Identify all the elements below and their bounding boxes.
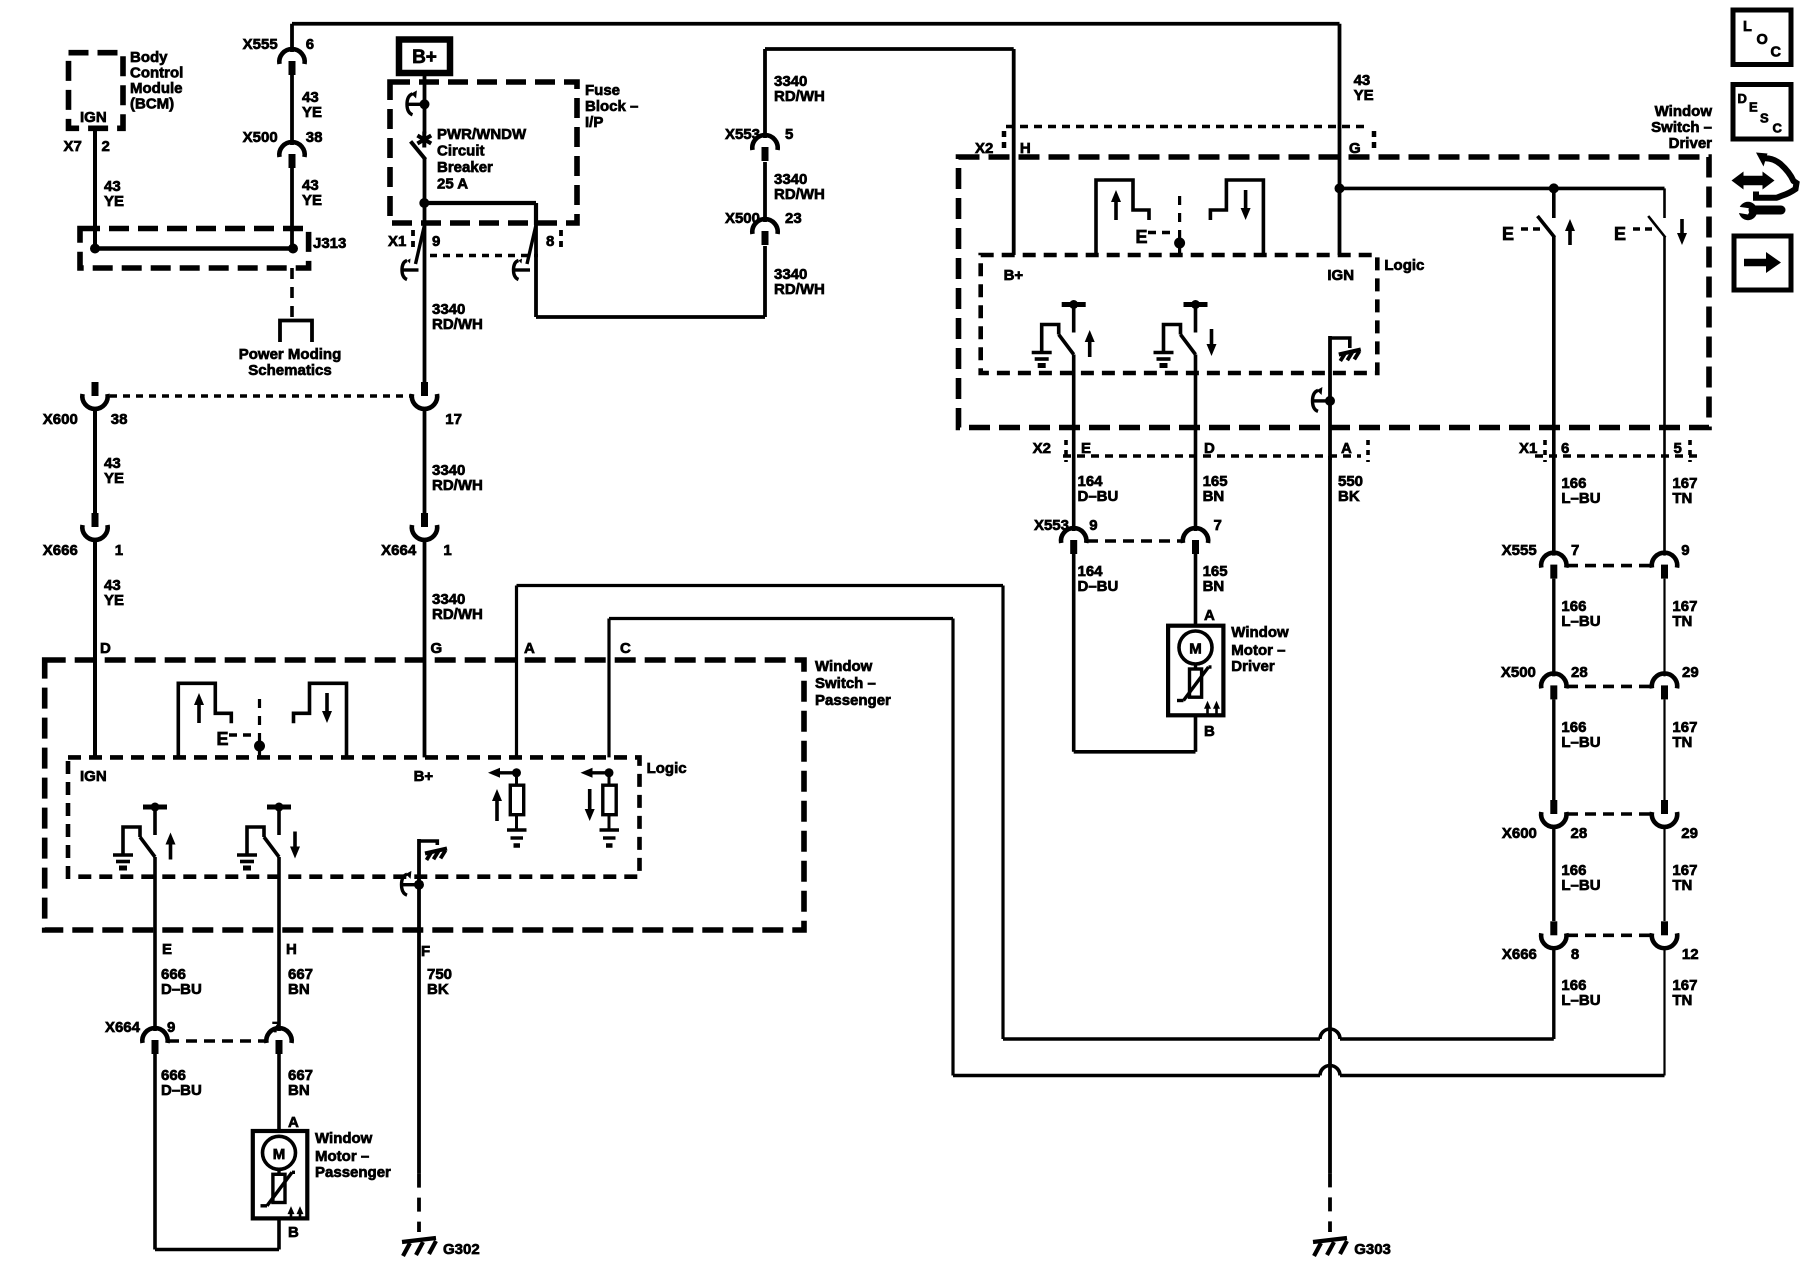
- svg-text:B+: B+: [1004, 267, 1024, 284]
- wire 167 TN X555 to X500: [1663, 579, 1665, 677]
- svg-text:I/P: I/P: [585, 114, 603, 131]
- connector X600 pins 28 and 29: [1550, 800, 1557, 814]
- terminal hook X1 pin 8: [527, 225, 536, 264]
- wire 666 D-BU below X664: [153, 1054, 157, 1250]
- wire C from driver switch to passenger logic: [607, 619, 610, 758]
- arrow down at driver down contact: [1210, 329, 1214, 346]
- logic input A arrow and resistor: [512, 768, 521, 777]
- arrow down at passenger down contact: [293, 832, 297, 849]
- svg-text:G: G: [431, 640, 443, 657]
- svg-text:X666: X666: [1502, 946, 1537, 963]
- node junction breaker output: [419, 198, 429, 208]
- arrows up-up in passenger motor: [290, 1212, 293, 1219]
- svg-text:X7: X7: [64, 138, 82, 155]
- internal ground passenger logic: [419, 841, 437, 845]
- svg-text:8: 8: [1571, 946, 1579, 963]
- wire dashed to Power Moding Schematics: [290, 268, 294, 318]
- svg-text:Motor –: Motor –: [315, 1148, 369, 1165]
- svg-text:7: 7: [1214, 517, 1222, 534]
- node junction at J313 left: [90, 244, 100, 254]
- dotted connector row X600-38 to pin 17: [110, 394, 410, 398]
- wire route A to X666-8: [1003, 1037, 1320, 1041]
- svg-text:RD/WH: RD/WH: [432, 606, 483, 623]
- svg-text:RD/WH: RD/WH: [774, 186, 825, 203]
- svg-text:C: C: [620, 640, 631, 657]
- svg-text:Driver: Driver: [1231, 658, 1275, 675]
- svg-text:C: C: [1773, 121, 1783, 136]
- window travel step symbol up passenger: [178, 683, 231, 758]
- wire 750 BK to G302: [417, 885, 421, 1174]
- svg-text:X600: X600: [43, 411, 78, 428]
- svg-text:IGN: IGN: [80, 768, 107, 785]
- svg-text:28: 28: [1571, 664, 1588, 681]
- svg-text:X2: X2: [1033, 440, 1051, 457]
- svg-text:BK: BK: [427, 981, 449, 998]
- wire 43 YE drop to driver switch IGN: [1338, 24, 1342, 255]
- tick mark pin 8: [559, 230, 563, 251]
- svg-text:C: C: [1771, 45, 1782, 61]
- svg-text:BN: BN: [1203, 578, 1225, 595]
- svg-text:X500: X500: [243, 129, 278, 146]
- terminal clip driver ground wire: [1314, 399, 1330, 402]
- terminal clip at B+ feed: [409, 103, 425, 106]
- svg-text:L–BU: L–BU: [1561, 490, 1600, 507]
- svg-text:BN: BN: [288, 981, 310, 998]
- svg-text:7: 7: [1571, 542, 1579, 559]
- connector pin 17 on X600 row: [421, 382, 428, 396]
- svg-text:TN: TN: [1672, 613, 1692, 630]
- svg-text:D: D: [1738, 91, 1747, 106]
- svg-text:Block –: Block –: [585, 98, 638, 115]
- svg-text:Logic: Logic: [647, 760, 687, 777]
- wire 550 BK to X2-A: [1328, 401, 1332, 460]
- svg-text:Driver: Driver: [1669, 135, 1713, 152]
- wire 43 YE X555 to X500: [290, 75, 294, 145]
- window travel step symbol down passenger: [294, 683, 347, 758]
- svg-text:Passenger: Passenger: [815, 692, 891, 709]
- wire 3340 RD/WH X664 to passenger switch pin G: [423, 538, 427, 757]
- svg-text:G302: G302: [443, 1241, 480, 1258]
- wire 667 BN to passenger motor: [277, 1054, 281, 1131]
- svg-text:M: M: [1189, 641, 1202, 658]
- wire 3340 RD/WH pin17 to X664: [423, 407, 427, 513]
- tick mark X1: [411, 230, 415, 251]
- svg-text:E: E: [217, 729, 229, 749]
- svg-text:9: 9: [432, 233, 440, 250]
- svg-text:X500: X500: [1501, 664, 1536, 681]
- node junction at J313 right: [288, 244, 298, 254]
- wire 164 D-BU to driver motor loop: [1072, 554, 1076, 752]
- svg-text:Fuse: Fuse: [585, 82, 620, 99]
- svg-text:RD/WH: RD/WH: [774, 88, 825, 105]
- wire 166 L-BU below X666: [1552, 946, 1555, 1039]
- svg-text:D–BU: D–BU: [1078, 578, 1119, 595]
- svg-text:TN: TN: [1672, 490, 1692, 507]
- svg-text:E: E: [1614, 224, 1626, 244]
- svg-text:RD/WH: RD/WH: [774, 281, 825, 298]
- arrows up-up in driver motor: [1206, 707, 1209, 714]
- wire 166 L-BU X600 to X666: [1552, 825, 1555, 921]
- wire driver switch D output: [1194, 355, 1198, 532]
- connector X600 pin 38: [92, 382, 99, 396]
- svg-text:Breaker: Breaker: [437, 159, 493, 176]
- svg-text:B+: B+: [414, 768, 434, 785]
- icon forward arrow box: [1734, 236, 1791, 290]
- splice J313 bus bar: [95, 246, 293, 251]
- svg-text:29: 29: [1682, 664, 1699, 681]
- BCM Body Control Module dashed box: [69, 53, 124, 129]
- svg-text:A: A: [288, 1114, 299, 1131]
- svg-text:Passenger: Passenger: [315, 1164, 391, 1181]
- svg-text:L–BU: L–BU: [1561, 992, 1600, 1009]
- svg-text:L: L: [1743, 19, 1752, 35]
- svg-text:X1: X1: [1519, 440, 1537, 457]
- svg-text:6: 6: [306, 36, 314, 53]
- svg-text:1: 1: [115, 542, 123, 559]
- wire down contact to X1-5: [1663, 237, 1666, 556]
- svg-text:Power Moding: Power Moding: [239, 346, 342, 363]
- wire 3340 RD/WH X553-5 up and right to driver switch B+: [763, 49, 767, 138]
- wire jumper to X1 pin 8: [424, 201, 536, 205]
- svg-text:YE: YE: [104, 470, 124, 487]
- wire 43 YE X666 to passenger switch pin D: [93, 538, 97, 757]
- svg-text:IGN: IGN: [1327, 267, 1354, 284]
- wire 550 BK inside driver switch: [1328, 336, 1332, 401]
- svg-text:Window: Window: [815, 658, 873, 675]
- terminal hook X1 pin 9: [416, 225, 425, 264]
- ground G302: [402, 1238, 436, 1242]
- connector X666 pin 1: [92, 513, 99, 527]
- svg-text:B: B: [1204, 723, 1215, 740]
- motor Window Motor - Passenger: [253, 1131, 307, 1218]
- svg-text:9: 9: [1089, 517, 1097, 534]
- svg-text:X1: X1: [388, 233, 406, 250]
- svg-text:Circuit: Circuit: [437, 143, 485, 160]
- switch passenger down contact: [275, 803, 284, 812]
- wire route C to X666-12: [953, 1074, 1320, 1078]
- power symbol B+ box: [399, 40, 450, 74]
- terminal clip passenger ground wire: [403, 883, 419, 886]
- svg-text:9: 9: [167, 1019, 175, 1036]
- svg-text:D: D: [100, 640, 111, 657]
- svg-text:YE: YE: [302, 104, 322, 121]
- wire A from driver switch to passenger logic: [515, 586, 518, 758]
- arrow up at driver up contact: [1088, 340, 1092, 357]
- wire X1 pin 8 to X500-23 riser: [534, 225, 538, 317]
- svg-text:PWR/WNDW: PWR/WNDW: [437, 126, 527, 143]
- connector X664 pin 1: [421, 513, 428, 527]
- svg-text:Switch –: Switch –: [815, 675, 876, 692]
- dotted connector row X1 9-8: [430, 254, 538, 258]
- svg-text:TN: TN: [1672, 992, 1692, 1009]
- wire 166 L-BU X500 to X600: [1552, 699, 1555, 800]
- svg-text:J313: J313: [313, 235, 346, 252]
- svg-text:Module: Module: [130, 80, 183, 97]
- svg-text:12: 12: [1682, 946, 1699, 963]
- logic input C arrow and resistor: [605, 768, 614, 777]
- wire driver switch internal bus: [1340, 187, 1665, 191]
- svg-text:TN: TN: [1672, 734, 1692, 751]
- svg-text:E: E: [1749, 100, 1758, 115]
- motor Window Motor - Driver: [1168, 626, 1223, 716]
- svg-text:D–BU: D–BU: [1078, 488, 1119, 505]
- wire 167 TN X500 to X600: [1663, 699, 1665, 800]
- svg-text:Motor –: Motor –: [1231, 642, 1285, 659]
- svg-text:29: 29: [1681, 825, 1698, 842]
- svg-text:G303: G303: [1354, 1241, 1391, 1258]
- wire 167 TN X600 to X666: [1663, 825, 1665, 921]
- svg-text:D–BU: D–BU: [161, 981, 202, 998]
- connector X666 pins 8 and 12: [1550, 921, 1557, 935]
- svg-text:BN: BN: [288, 1082, 310, 1099]
- icon curved arrow with double arrow and wrench: [1756, 158, 1797, 198]
- svg-text:(BCM): (BCM): [130, 96, 174, 113]
- svg-text:S: S: [1760, 111, 1769, 126]
- svg-text:A: A: [524, 640, 535, 657]
- svg-text:H: H: [286, 941, 297, 958]
- wire 550 BK to G303: [1328, 456, 1332, 1173]
- svg-text:E: E: [162, 941, 172, 958]
- wire passenger motor B loop: [277, 1218, 281, 1249]
- internal ground driver logic: [1330, 338, 1350, 348]
- svg-text:23: 23: [785, 210, 802, 227]
- svg-text:B+: B+: [412, 47, 437, 68]
- svg-text:X555: X555: [243, 36, 278, 53]
- ground at logic input A: [507, 828, 527, 831]
- node junction passenger ground wire: [414, 880, 424, 890]
- svg-text:BN: BN: [1203, 488, 1225, 505]
- svg-text:X555: X555: [1502, 542, 1537, 559]
- window travel step symbol up: [1096, 180, 1149, 255]
- svg-text:28: 28: [1571, 825, 1588, 842]
- icon wrench: [1739, 202, 1757, 220]
- svg-text:YE: YE: [1354, 87, 1374, 104]
- off-page bracket Power Moding: [280, 321, 312, 343]
- svg-text:X664: X664: [105, 1019, 141, 1036]
- svg-text:L–BU: L–BU: [1561, 734, 1600, 751]
- passenger logic dashed box: [68, 757, 640, 876]
- arrow up at logic input A: [495, 799, 499, 821]
- svg-text:Window: Window: [1231, 624, 1289, 641]
- svg-text:X600: X600: [1502, 825, 1537, 842]
- arrow down at express down switch: [1680, 219, 1684, 235]
- svg-text:E: E: [1502, 224, 1514, 244]
- wire 167 TN below X666: [1663, 946, 1665, 1075]
- svg-text:Schematics: Schematics: [248, 362, 331, 379]
- wire 43 YE from BCM IGN to J313: [93, 128, 97, 248]
- wire driver motor B loop: [1194, 715, 1198, 752]
- circuit breaker PWR/WNDW 25A symbol: [422, 132, 426, 148]
- wire top bus 43 YE from X555-6 to driver switch: [292, 22, 1340, 26]
- svg-text:38: 38: [111, 411, 128, 428]
- svg-text:M: M: [273, 1146, 286, 1163]
- node junction B+ feed: [420, 99, 430, 109]
- svg-text:Window: Window: [315, 1130, 373, 1147]
- node junction driver ground wire: [1325, 396, 1335, 406]
- arrow up in step symbol: [1114, 200, 1118, 220]
- wire 3340 RD/WH X1-9 down: [423, 203, 427, 382]
- wire to circuit breaker: [423, 104, 427, 133]
- wire 750 BK inside passenger switch: [417, 839, 421, 885]
- wire passenger switch H output: [277, 857, 281, 1031]
- icon DESC box: [1733, 85, 1791, 140]
- svg-text:Window: Window: [1655, 103, 1713, 120]
- svg-text:L–BU: L–BU: [1561, 877, 1600, 894]
- svg-text:17: 17: [445, 411, 462, 428]
- switch driver down contact: [1191, 300, 1200, 309]
- wire 166 L-BU X555 to X500: [1552, 579, 1555, 677]
- arrow down at logic input C: [588, 789, 592, 811]
- svg-text:Switch –: Switch –: [1651, 119, 1712, 136]
- node junction to up contact: [1549, 183, 1559, 193]
- wire B+ into fuse block: [423, 73, 427, 100]
- svg-text:BK: BK: [1338, 488, 1360, 505]
- ground G303: [1313, 1238, 1347, 1242]
- arrow up in passenger step symbol: [197, 703, 201, 723]
- wire 43 YE X600 to X666: [93, 407, 97, 513]
- passenger window switch dashed box: [45, 660, 804, 930]
- svg-text:YE: YE: [104, 193, 124, 210]
- svg-text:B: B: [288, 1224, 299, 1241]
- wire 43 YE X500 to J313: [290, 168, 294, 249]
- svg-text:9: 9: [1681, 542, 1689, 559]
- svg-text:IGN: IGN: [80, 109, 107, 126]
- svg-text:Body: Body: [130, 49, 168, 66]
- svg-text:X664: X664: [381, 542, 417, 559]
- switch driver up contact: [1069, 300, 1078, 309]
- driver window switch dashed box: [959, 157, 1710, 428]
- wire up contact to X1-6: [1552, 237, 1556, 556]
- switch passenger up contact: [151, 803, 160, 812]
- arrow up at express up switch: [1568, 229, 1572, 245]
- svg-text:YE: YE: [104, 592, 124, 609]
- icon LOC box: [1733, 10, 1791, 65]
- svg-text:A: A: [1204, 607, 1215, 624]
- splice J313 dashed box: [80, 229, 309, 269]
- svg-text:38: 38: [306, 129, 323, 146]
- svg-text:25 A: 25 A: [437, 176, 468, 193]
- svg-text:E: E: [1136, 227, 1148, 247]
- svg-text:1: 1: [443, 542, 451, 559]
- svg-text:O: O: [1757, 32, 1768, 48]
- arrow up at passenger up contact: [169, 843, 173, 860]
- wire breaker to X1 junction: [423, 158, 427, 203]
- wire driver switch E output: [1072, 355, 1076, 532]
- svg-text:L–BU: L–BU: [1561, 613, 1600, 630]
- window travel step symbol down: [1210, 180, 1263, 255]
- connector X2 row driver switch top: [1006, 125, 1370, 129]
- wire 165 BN to driver motor: [1194, 554, 1198, 627]
- svg-text:8: 8: [546, 233, 554, 250]
- svg-text:X666: X666: [43, 542, 78, 559]
- svg-text:YE: YE: [302, 192, 322, 209]
- svg-text:2: 2: [102, 138, 110, 155]
- fuse block dashed box: [390, 82, 577, 223]
- svg-text:RD/WH: RD/WH: [432, 316, 483, 333]
- wire passenger switch E output: [153, 857, 157, 1031]
- svg-text:D–BU: D–BU: [161, 1082, 202, 1099]
- node junction driver IGN branch: [1335, 183, 1345, 193]
- svg-text:Logic: Logic: [1384, 257, 1424, 274]
- arrow down in step symbol: [1244, 190, 1248, 210]
- ground at logic input C: [600, 828, 620, 831]
- svg-text:Control: Control: [130, 65, 183, 82]
- arrow down in passenger step symbol: [325, 693, 329, 713]
- svg-text:F: F: [421, 943, 430, 960]
- driver logic dashed box: [981, 255, 1378, 373]
- svg-text:TN: TN: [1672, 877, 1692, 894]
- svg-text:RD/WH: RD/WH: [432, 477, 483, 494]
- svg-text:5: 5: [785, 126, 793, 143]
- wire 3340 RD/WH X500-23 to X553-5: [763, 162, 767, 222]
